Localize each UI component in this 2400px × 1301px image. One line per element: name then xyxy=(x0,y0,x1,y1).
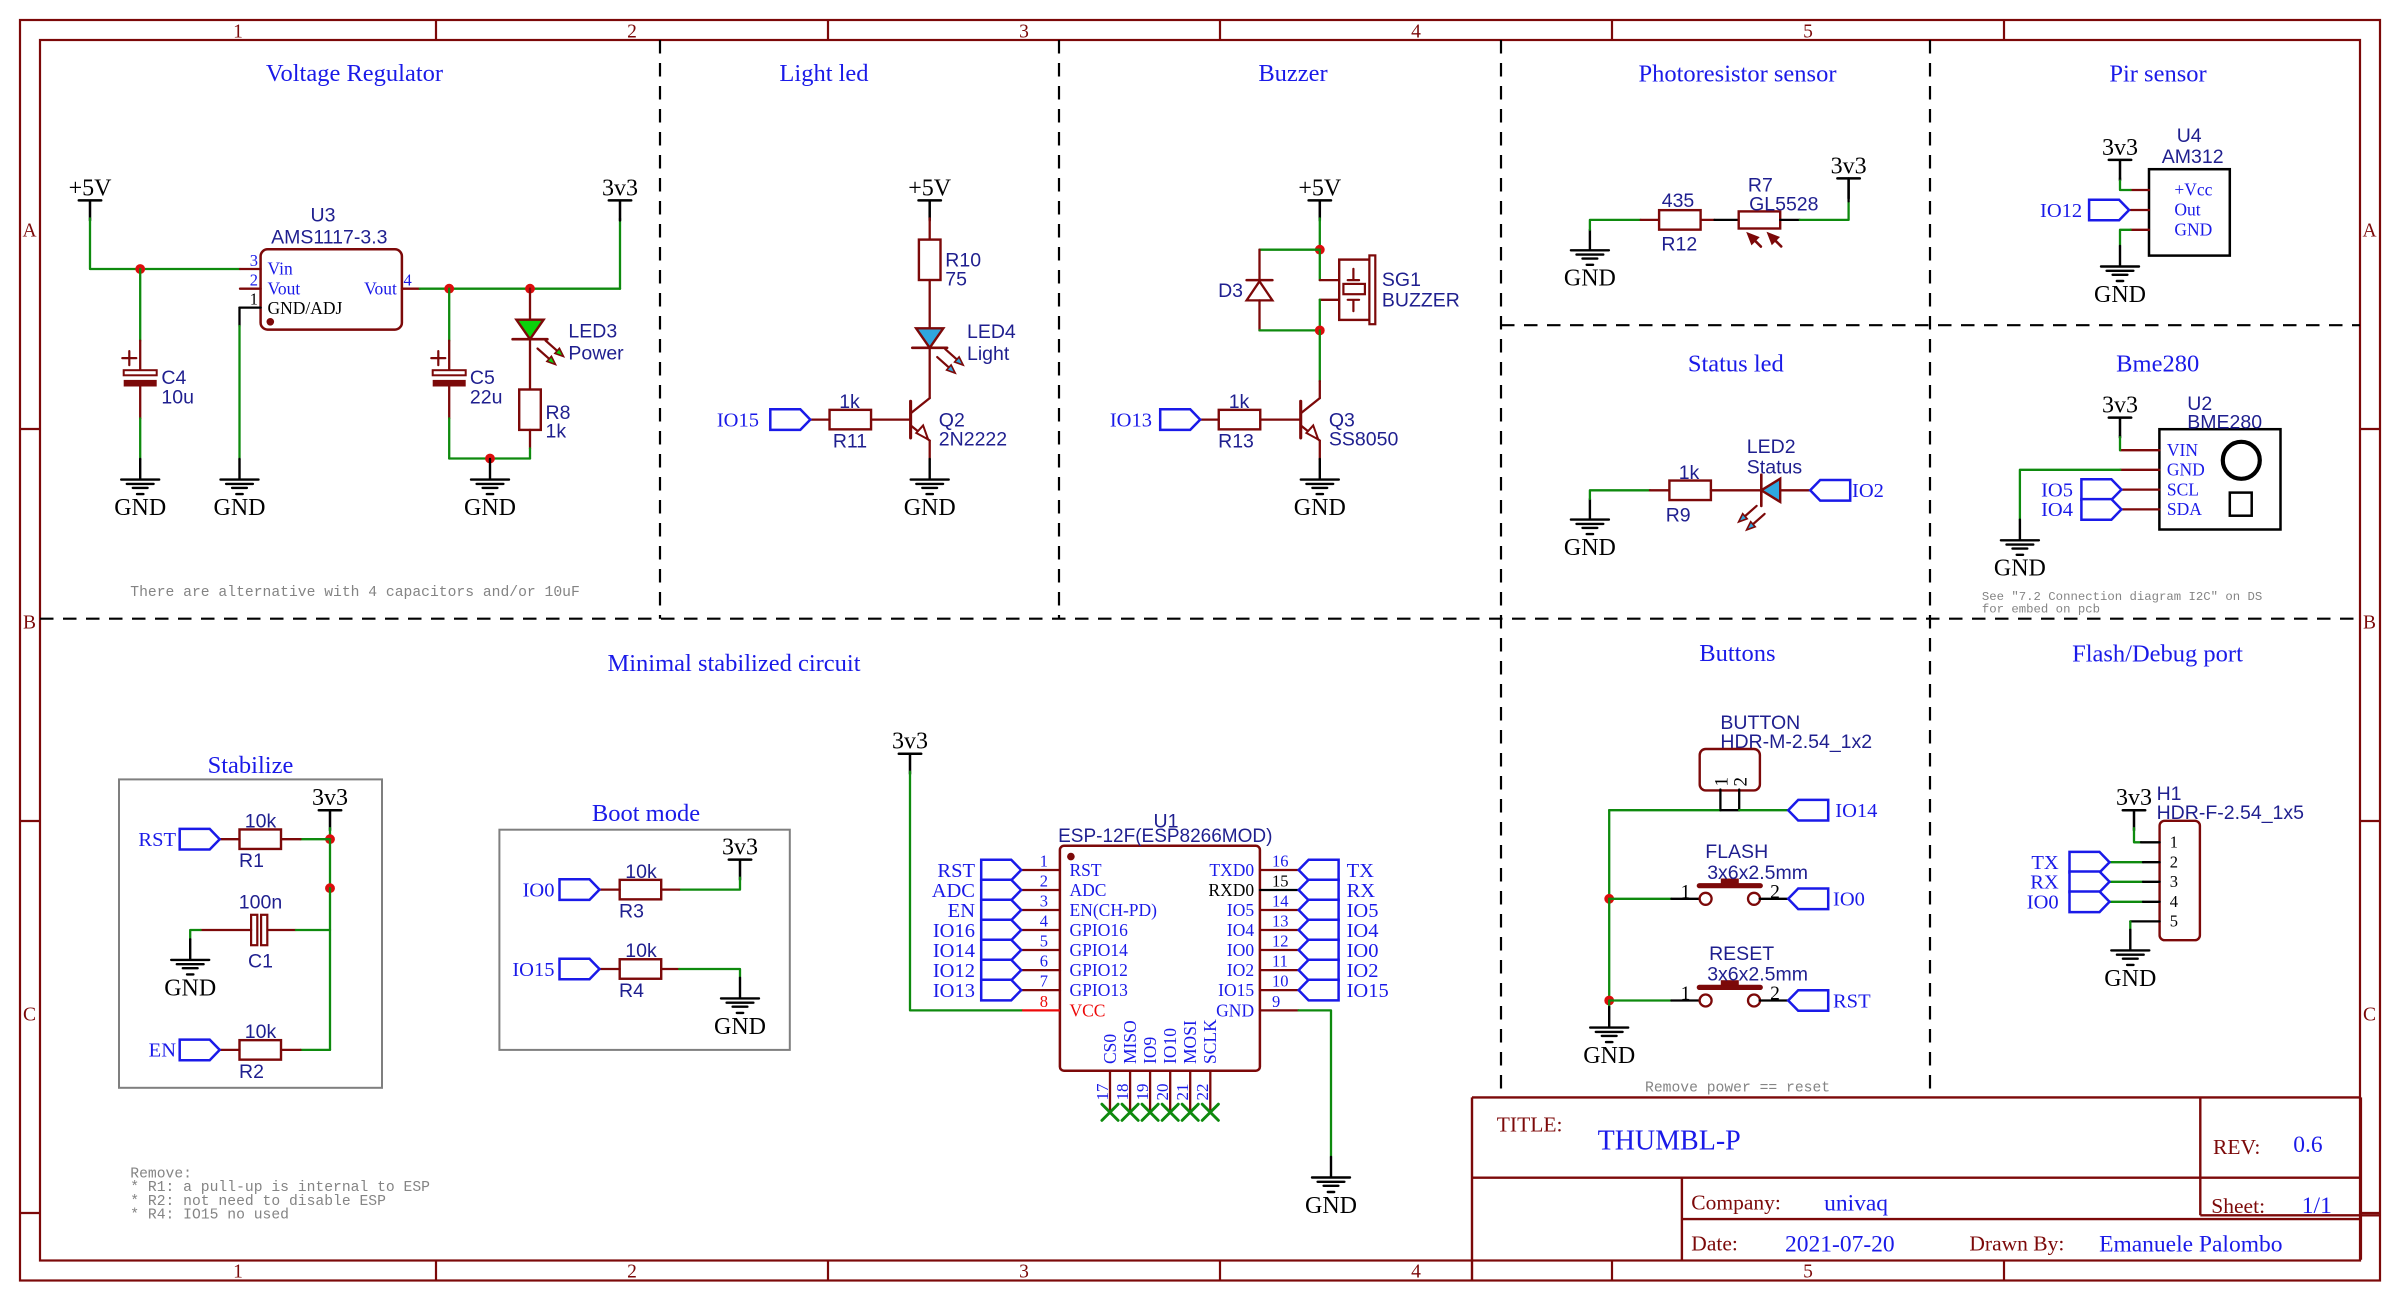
stabilize group box xyxy=(119,779,382,1087)
svg-text:5: 5 xyxy=(1040,932,1048,951)
svg-text:2: 2 xyxy=(1040,872,1048,891)
LED LED2 xyxy=(1760,475,1763,506)
power symbol 3v3 photo xyxy=(1837,178,1859,198)
svg-text:R2: R2 xyxy=(239,1061,264,1083)
resistor R10 xyxy=(919,240,941,280)
power symbol 3v3 stab xyxy=(319,810,341,830)
wire IO0 row xyxy=(2110,901,2144,903)
svg-text:+5V: +5V xyxy=(69,175,113,201)
junction node xyxy=(1315,245,1325,255)
svg-text:univaq: univaq xyxy=(1824,1191,1888,1217)
hierarchical label IO5 xyxy=(1299,900,1339,921)
ground (boot) xyxy=(721,978,759,1013)
U2 sensor square xyxy=(2230,493,2252,516)
LED LED3 xyxy=(516,320,543,340)
header H1 body xyxy=(2160,821,2200,940)
wire 3v3 to VIN xyxy=(2119,436,2121,438)
R7 light arrows xyxy=(1755,241,1761,247)
sensor U2 body xyxy=(2159,429,2280,529)
BUTTON pin 1 xyxy=(1719,790,1721,811)
svg-text:IO12: IO12 xyxy=(2040,200,2082,222)
svg-text:75: 75 xyxy=(945,269,967,291)
wire 3v3 riser xyxy=(619,218,621,288)
header BUTTON body xyxy=(1700,749,1760,790)
svg-text:11: 11 xyxy=(1272,952,1288,971)
wire buttons rail xyxy=(1608,810,1610,899)
svg-text:IO13: IO13 xyxy=(1110,409,1152,431)
svg-text:VCC: VCC xyxy=(1070,1000,1106,1020)
title block frame xyxy=(1472,1097,2380,1280)
hierarchical label IO15 xyxy=(770,409,810,430)
wire FLASH row left xyxy=(1609,898,1671,900)
power symbol 3v3 boot xyxy=(729,860,751,880)
svg-text:SCLK: SCLK xyxy=(1200,1019,1220,1064)
hierarchical label RST xyxy=(981,860,1021,881)
R12 right pin xyxy=(1701,219,1715,221)
BUTTON pin 2 xyxy=(1738,790,1740,811)
resistor R8 xyxy=(519,390,541,430)
svg-text:10k: 10k xyxy=(625,861,657,883)
wire Q2 emitter to ground xyxy=(929,441,931,460)
wire IO14 row xyxy=(1609,809,1720,811)
svg-text:Vout: Vout xyxy=(268,278,301,298)
R4 right pin xyxy=(661,968,679,970)
svg-text:R4: R4 xyxy=(619,980,644,1002)
wire IO0 to R3 xyxy=(600,888,620,890)
svg-text:5: 5 xyxy=(1803,1262,1813,1283)
svg-text:RST: RST xyxy=(937,860,975,882)
svg-text:LED2: LED2 xyxy=(1747,436,1796,458)
svg-text:Drawn By:: Drawn By: xyxy=(1969,1232,2064,1256)
svg-text:1k: 1k xyxy=(1229,391,1250,413)
ground (status) xyxy=(1571,499,1609,534)
svg-text:Flash/Debug port: Flash/Debug port xyxy=(2072,641,2243,668)
svg-text:GND: GND xyxy=(904,495,956,521)
svg-text:10: 10 xyxy=(1272,972,1289,991)
svg-text:Remove power == reset: Remove power == reset xyxy=(1645,1081,1830,1097)
svg-text:B: B xyxy=(2363,612,2376,633)
ground (C4) xyxy=(121,459,159,494)
svg-text:TXD0: TXD0 xyxy=(1209,860,1254,880)
svg-text:A: A xyxy=(22,220,36,241)
wire C4 top xyxy=(139,269,141,341)
svg-text:IO15: IO15 xyxy=(717,409,759,431)
svg-text:IO9: IO9 xyxy=(1140,1037,1160,1064)
U1 pin 17 CS0 (no connect) xyxy=(1109,1071,1111,1113)
U1 pin 18 MISO (no connect) xyxy=(1129,1071,1131,1113)
U1 pin 3 EN(CH-PD) xyxy=(1021,909,1060,911)
wire R8 bottom xyxy=(529,430,531,449)
buzzer SG1 body xyxy=(1339,260,1369,320)
svg-text:1: 1 xyxy=(1040,852,1048,871)
wire R9 to LED2 xyxy=(1711,489,1760,491)
U3 pin 3 Vin xyxy=(240,268,261,270)
power symbol 3v3 bme xyxy=(2109,418,2131,438)
wire U3 pin1 to ground xyxy=(238,308,240,326)
svg-text:2021-07-20: 2021-07-20 xyxy=(1785,1232,1895,1258)
resistor R1 xyxy=(240,829,282,849)
resistor R9 xyxy=(1669,481,1711,501)
svg-text:Stabilize: Stabilize xyxy=(208,752,294,779)
wire R4 to ground xyxy=(679,969,740,978)
svg-text:SG1: SG1 xyxy=(1382,269,1421,291)
svg-text:3v3: 3v3 xyxy=(2102,393,2138,419)
U1 pin 1 RST xyxy=(1021,869,1060,871)
wire D3 top lead xyxy=(1258,250,1260,280)
wire IO13 to R13 xyxy=(1200,418,1219,420)
svg-text:Vin: Vin xyxy=(268,259,293,279)
svg-text:Pir sensor: Pir sensor xyxy=(2109,61,2206,88)
svg-text:3x6x2.5mm: 3x6x2.5mm xyxy=(1707,862,1808,884)
wire C1 left to ground xyxy=(201,929,252,931)
wire H1 pin5 to ground xyxy=(2130,920,2159,922)
hierarchical label IO12 xyxy=(981,960,1021,981)
svg-text:GND: GND xyxy=(164,975,216,1001)
resistor R3 xyxy=(620,880,662,900)
hierarchical label IO13 xyxy=(1160,409,1200,430)
SG1 pin 2 xyxy=(1320,299,1339,301)
svg-text:VIN: VIN xyxy=(2167,440,2198,460)
svg-text:EN: EN xyxy=(948,900,976,922)
power symbol +5V buzzer xyxy=(1309,200,1331,220)
svg-text:2: 2 xyxy=(627,22,637,43)
transistor Q2 xyxy=(909,401,912,438)
svg-text:IO0: IO0 xyxy=(523,879,555,901)
diode D3 xyxy=(1247,279,1273,282)
resistor R4 xyxy=(620,959,662,979)
svg-text:13: 13 xyxy=(1272,912,1289,931)
svg-text:TITLE:: TITLE: xyxy=(1497,1113,1563,1137)
svg-text:10u: 10u xyxy=(161,387,194,409)
svg-text:GND: GND xyxy=(1564,266,1616,292)
wire 3v3 to H1 pin1 xyxy=(2134,828,2141,842)
svg-text:IO5: IO5 xyxy=(1347,900,1379,922)
power symbol 3v3 pir xyxy=(2109,160,2131,180)
LED2 emission arrows xyxy=(1745,506,1757,516)
svg-text:LED3: LED3 xyxy=(568,321,617,343)
wire LED3 anode xyxy=(529,289,531,320)
svg-text:IO15: IO15 xyxy=(512,959,554,981)
wire bottom rail C5-R8 xyxy=(449,457,530,459)
svg-text:7: 7 xyxy=(1040,972,1048,991)
svg-text:1: 1 xyxy=(2170,833,2178,852)
U1 pin 12 IO0 xyxy=(1260,949,1299,951)
svg-text:1k: 1k xyxy=(546,421,567,443)
svg-text:3: 3 xyxy=(1019,22,1029,43)
wire buttons rail 2 xyxy=(1608,899,1610,1001)
svg-text:THUMBL-P: THUMBL-P xyxy=(1598,1126,1741,1157)
svg-text:RST: RST xyxy=(1833,990,1871,1012)
svg-text:4: 4 xyxy=(404,271,412,290)
svg-text:Bme280: Bme280 xyxy=(2116,351,2199,378)
svg-text:GL5528: GL5528 xyxy=(1749,193,1818,215)
U1 pin 15 RXD0 xyxy=(1260,889,1299,891)
U3 pin 4 Vout (right) xyxy=(402,288,420,290)
hierarchical label IO0 xyxy=(1788,889,1828,910)
wire 3v3 to R3 xyxy=(679,878,740,890)
svg-text:R12: R12 xyxy=(1661,233,1697,255)
svg-text:Power: Power xyxy=(568,343,624,365)
U2 pin VIN xyxy=(2120,449,2159,451)
svg-text:B: B xyxy=(23,612,36,633)
svg-text:RESET: RESET xyxy=(1709,943,1774,965)
junction node xyxy=(444,284,454,294)
svg-text:12: 12 xyxy=(1272,932,1289,951)
svg-text:IO4: IO4 xyxy=(1347,920,1379,942)
svg-text:2N2222: 2N2222 xyxy=(939,429,1007,451)
wire junction to SG1 pin1 xyxy=(1319,250,1321,280)
regulator U3 body xyxy=(261,249,402,329)
svg-text:20: 20 xyxy=(1153,1084,1172,1101)
U1 pin 22 SCLK (no connect) xyxy=(1209,1071,1211,1113)
wire ground to R12 xyxy=(1590,220,1641,230)
svg-text:GND: GND xyxy=(2174,219,2212,239)
wire U1 GND to ground xyxy=(1299,1010,1331,1157)
svg-text:IO2: IO2 xyxy=(1347,960,1379,982)
svg-text:IO14: IO14 xyxy=(933,940,975,962)
svg-text:3: 3 xyxy=(1019,1262,1029,1283)
resistor R11 xyxy=(830,410,872,430)
svg-text:+Vcc: +Vcc xyxy=(2174,180,2212,200)
R9 left pin xyxy=(1650,489,1670,491)
svg-text:21: 21 xyxy=(1173,1084,1192,1101)
hierarchical label IO15 xyxy=(1299,980,1339,1001)
svg-text:1k: 1k xyxy=(839,391,860,413)
U1 pin 10 IO15 xyxy=(1260,989,1299,991)
wire C4 to ground xyxy=(139,418,141,459)
hierarchical label IO5 xyxy=(2081,479,2121,500)
U1 anchor dot xyxy=(1067,853,1075,861)
U2 pin SCL xyxy=(2121,488,2159,490)
U1 pin 5 GPIO14 xyxy=(1021,949,1060,951)
svg-text:IO2: IO2 xyxy=(1852,480,1884,502)
svg-text:RX: RX xyxy=(1347,880,1376,902)
svg-text:GND: GND xyxy=(2094,282,2146,308)
svg-text:RX: RX xyxy=(2030,872,2059,894)
svg-text:R13: R13 xyxy=(1218,431,1254,453)
hierarchical label TX xyxy=(1299,860,1339,881)
svg-text:8: 8 xyxy=(1040,992,1048,1011)
svg-text:Vout: Vout xyxy=(364,278,397,298)
ground (buttons) xyxy=(1590,1007,1628,1042)
svg-text:GPIO14: GPIO14 xyxy=(1070,940,1129,960)
svg-text:10k: 10k xyxy=(245,1021,277,1043)
wire R7 to 3v3 xyxy=(1780,219,1800,221)
U1 pin 13 IO4 xyxy=(1260,929,1299,931)
wire +5V to R10 xyxy=(929,218,931,239)
hierarchical label IO4 xyxy=(2081,499,2121,520)
junction node xyxy=(1604,996,1614,1006)
wire EN to R2 xyxy=(220,1049,240,1051)
U4 pin +Vcc xyxy=(2131,189,2149,191)
hierarchical label IO13 xyxy=(981,980,1021,1001)
svg-text:GND: GND xyxy=(464,495,516,521)
svg-text:EN(CH-PD): EN(CH-PD) xyxy=(1070,900,1158,920)
svg-text:16: 16 xyxy=(1272,852,1289,871)
ground (photoresistor) xyxy=(1571,230,1609,265)
svg-text:Buzzer: Buzzer xyxy=(1258,60,1327,87)
module U1 body xyxy=(1060,846,1260,1071)
ground (Q2) xyxy=(911,459,949,494)
U3 pin 1 GND/ADJ xyxy=(240,306,261,308)
ground (U3) xyxy=(221,459,259,494)
svg-text:GND: GND xyxy=(214,495,266,521)
svg-text:IO0: IO0 xyxy=(1833,889,1865,911)
hierarchical label IO2 xyxy=(1299,960,1339,981)
wire 3v3 to rail xyxy=(329,828,331,839)
svg-text:ESP-12F(ESP8266MOD): ESP-12F(ESP8266MOD) xyxy=(1058,826,1272,847)
svg-text:22: 22 xyxy=(1193,1084,1212,1101)
section divider dashed lines xyxy=(40,40,2360,1097)
svg-text:* R4: IO15 no used: * R4: IO15 no used xyxy=(130,1208,289,1224)
wire LED4 to Q2 collector xyxy=(929,348,931,398)
svg-text:IO5: IO5 xyxy=(1227,900,1254,920)
svg-text:R3: R3 xyxy=(619,901,644,923)
hierarchical label TX xyxy=(2070,852,2110,873)
svg-text:C: C xyxy=(2363,1004,2376,1025)
svg-text:3v3: 3v3 xyxy=(2116,785,2152,811)
svg-text:GND: GND xyxy=(114,495,166,521)
svg-text:10k: 10k xyxy=(625,940,657,962)
svg-text:IO15: IO15 xyxy=(1347,980,1389,1002)
svg-text:C1: C1 xyxy=(248,951,273,973)
svg-text:Emanuele Palombo: Emanuele Palombo xyxy=(2099,1232,2282,1258)
svg-text:15: 15 xyxy=(1272,872,1289,891)
ground (debug port) xyxy=(2111,930,2149,965)
svg-text:22u: 22u xyxy=(470,387,503,409)
svg-text:D3: D3 xyxy=(1218,280,1243,302)
wire junction to Q3 collector xyxy=(1319,330,1321,381)
hierarchical label RST xyxy=(180,829,220,850)
svg-text:for embed on pcb: for embed on pcb xyxy=(1982,603,2100,617)
svg-text:1: 1 xyxy=(233,1262,243,1283)
svg-text:R9: R9 xyxy=(1666,505,1691,527)
svg-text:1/1: 1/1 xyxy=(2302,1193,2332,1219)
LED LED4 xyxy=(916,328,943,348)
U3 anchor dot xyxy=(267,318,275,326)
svg-text:Status: Status xyxy=(1747,457,1803,479)
wire LED3 to R8 xyxy=(529,339,531,389)
svg-text:IO0: IO0 xyxy=(1227,940,1254,960)
U2 sensor circle xyxy=(2223,442,2260,479)
svg-text:1k: 1k xyxy=(1679,462,1700,484)
ground (pir) xyxy=(2101,246,2139,281)
svg-text:Sheet:: Sheet: xyxy=(2211,1194,2265,1218)
wire Q2 base xyxy=(871,418,911,420)
svg-text:GND: GND xyxy=(1305,1193,1357,1219)
switch FLASH xyxy=(1700,893,1712,905)
power symbol 3v3 esp xyxy=(899,754,921,774)
svg-text:AMS1117-3.3: AMS1117-3.3 xyxy=(271,227,387,249)
U1 pin 8 VCC xyxy=(1022,1009,1060,1011)
capacitor C1 xyxy=(251,915,257,945)
junction node xyxy=(1604,894,1614,904)
svg-text:2: 2 xyxy=(1730,777,1751,787)
hierarchical label RX xyxy=(2070,872,2110,893)
svg-text:LED4: LED4 xyxy=(967,321,1016,343)
svg-text:3x6x2.5mm: 3x6x2.5mm xyxy=(1707,964,1808,986)
ground (C1) xyxy=(171,939,209,974)
U1 pin 9 GND xyxy=(1260,1009,1299,1011)
U1 pin 11 IO2 xyxy=(1260,969,1299,971)
svg-text:IO0: IO0 xyxy=(1347,940,1379,962)
hierarchical label EN xyxy=(981,900,1021,921)
svg-text:2: 2 xyxy=(1770,984,1780,1005)
resistor R12 xyxy=(1659,210,1701,230)
power symbol 3v3 debug xyxy=(2123,810,2145,830)
wire C1 right to rail xyxy=(269,929,296,931)
resistor R2 xyxy=(240,1040,282,1060)
svg-text:IO14: IO14 xyxy=(1835,800,1877,822)
svg-text:1: 1 xyxy=(250,290,258,309)
wire TX row xyxy=(2110,861,2144,863)
wire rail down xyxy=(329,839,331,888)
svg-text:2: 2 xyxy=(1770,882,1780,903)
hierarchical label RST xyxy=(1788,990,1828,1011)
buzzer SG1 piezo element xyxy=(1348,269,1359,311)
wire EN row xyxy=(301,1049,331,1051)
svg-text:4: 4 xyxy=(2170,892,2178,911)
svg-text:IO4: IO4 xyxy=(1227,920,1254,940)
svg-text:1: 1 xyxy=(1681,882,1691,903)
wire IO15 to R11 xyxy=(810,418,829,420)
svg-text:6: 6 xyxy=(1040,952,1048,971)
wire D3 bottom lead xyxy=(1258,300,1260,330)
svg-text:GND: GND xyxy=(1583,1043,1635,1069)
hierarchical label IO0 xyxy=(560,879,600,900)
svg-text:GND: GND xyxy=(1216,1000,1254,1020)
R12 left pin xyxy=(1641,219,1659,221)
hierarchical label IO14 xyxy=(981,940,1021,961)
wire +5V down xyxy=(1319,218,1321,249)
wire SG1 pin2 to junction xyxy=(1319,300,1321,331)
svg-text:3: 3 xyxy=(1040,892,1048,911)
svg-text:R1: R1 xyxy=(239,850,264,872)
svg-text:Company:: Company: xyxy=(1691,1191,1781,1215)
svg-text:3: 3 xyxy=(2170,872,2178,891)
resistor R13 xyxy=(1219,410,1261,430)
svg-text:GPIO13: GPIO13 xyxy=(1070,980,1129,1000)
ground (esp) xyxy=(1312,1157,1350,1192)
ground (bme280) xyxy=(2001,520,2039,555)
svg-text:GND/ADJ: GND/ADJ xyxy=(268,298,343,318)
U1 pin 2 ADC xyxy=(1021,889,1060,891)
svg-text:+5V: +5V xyxy=(908,175,952,201)
capacitor C5 xyxy=(433,370,466,375)
svg-text:BME280: BME280 xyxy=(2187,412,2262,434)
U2 pin SDA xyxy=(2121,508,2159,510)
svg-text:0.6: 0.6 xyxy=(2293,1132,2323,1158)
hierarchical label ADC xyxy=(981,880,1021,901)
wire LED2 to IO2 xyxy=(1780,489,1810,491)
U1 pin 21 MOSI (no connect) xyxy=(1189,1071,1191,1113)
svg-text:FLASH: FLASH xyxy=(1705,841,1768,863)
svg-text:RST: RST xyxy=(1070,860,1102,880)
svg-text:U4: U4 xyxy=(2177,125,2202,147)
wire IO15 to R4 xyxy=(600,968,620,970)
wire +5V to Vin xyxy=(90,218,240,269)
svg-text:Status led: Status led xyxy=(1688,351,1784,378)
LED3 emission arrows xyxy=(546,341,558,351)
svg-text:4: 4 xyxy=(1411,22,1421,43)
svg-text:2: 2 xyxy=(2170,853,2178,872)
svg-text:1: 1 xyxy=(233,22,243,43)
wire RX row xyxy=(2110,881,2144,883)
svg-text:ADC: ADC xyxy=(932,880,975,902)
R2 right pin xyxy=(281,1049,301,1051)
hierarchical label IO2 xyxy=(1810,480,1850,501)
sensor U4 body xyxy=(2149,169,2230,255)
